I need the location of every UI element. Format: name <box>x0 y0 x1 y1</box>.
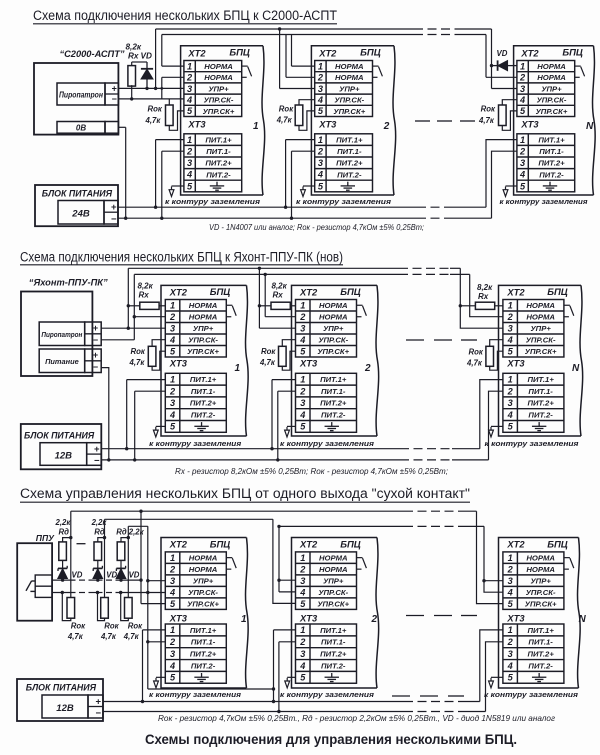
12V terminal cells sec3 <box>88 695 103 718</box>
unit 3-1 ground stub wire <box>156 676 165 678</box>
svg-text:Rд: Rд <box>59 527 70 536</box>
continuation dashes mid section3 <box>406 615 424 617</box>
wire Rok bottom hook unit2-N <box>490 351 503 370</box>
svg-text:3: 3 <box>300 649 305 659</box>
svg-text:2: 2 <box>299 637 306 647</box>
svg-text:УПР+: УПР+ <box>193 577 214 586</box>
C2000 Пиропатрон box <box>57 83 105 105</box>
12V inner box sec3 <box>42 695 88 718</box>
wire minus riser PIT1- unit2-N <box>489 391 503 460</box>
svg-text:4,7к: 4,7к <box>478 116 495 125</box>
svg-text:3: 3 <box>300 398 305 408</box>
title 2 underline <box>20 264 343 266</box>
wire Rok bottom hook unit2-2 <box>282 351 295 370</box>
svg-text:5: 5 <box>318 106 324 116</box>
wire NORMA drop to pin1 unit2 <box>291 35 293 67</box>
svg-text:2: 2 <box>317 73 324 83</box>
svg-text:+: + <box>96 696 102 707</box>
unit 3-1 connector XT2 strip <box>165 552 226 610</box>
svg-text:1: 1 <box>508 625 513 635</box>
busB section2 solid <box>134 273 399 275</box>
C2000 0V box <box>57 122 105 134</box>
svg-text:БЛОК ПИТАНИЯ: БЛОК ПИТАНИЯ <box>26 682 97 692</box>
unit 1-2 ground stub wire <box>303 185 315 187</box>
wire PIT1+ riser unit2-1 <box>126 380 128 449</box>
unit 2-N ground stub wire <box>491 425 503 427</box>
wire Rx1 to VD1 cathode <box>132 61 147 63</box>
svg-text:2: 2 <box>317 147 324 157</box>
svg-text:УПР.СК+: УПР.СК+ <box>317 600 349 609</box>
svg-text:Rок: Rок <box>71 621 86 630</box>
bus pin3 dashed sec3 <box>404 525 460 527</box>
bus1 UPR+ top solid <box>156 28 414 30</box>
unit 3-2 ground stub wire <box>287 676 295 678</box>
svg-text:4: 4 <box>169 335 175 345</box>
svg-text:НОРМА: НОРМА <box>189 565 218 574</box>
wire Rok bottom hook unit2-1 <box>152 351 165 370</box>
svg-text:4: 4 <box>169 661 175 671</box>
bus1 UPR+ dashed gap <box>414 28 459 30</box>
svg-text:ПИТ.2-: ПИТ.2- <box>539 170 564 179</box>
Yahont power terminal cells <box>85 349 102 373</box>
svg-text:N: N <box>586 121 594 132</box>
svg-text:ППУ: ППУ <box>36 533 55 543</box>
junction Rx wire unit2-2 <box>258 304 261 307</box>
wire minus bus riser to PIT1- unitN <box>492 151 517 218</box>
svg-text:ПИТ.1+: ПИТ.1+ <box>527 375 554 384</box>
svg-text:12В: 12В <box>56 703 74 714</box>
svg-text:ХТ3: ХТ3 <box>169 358 188 369</box>
power supply 12V box section3 <box>17 679 103 721</box>
svg-text:8,2к: 8,2к <box>126 43 142 52</box>
svg-text:УПР.СК+: УПР.СК+ <box>333 107 365 116</box>
BPC unit 1-N outer box <box>514 46 596 195</box>
resistor Rok2 4.7k <box>295 105 303 126</box>
junction PIT1+ unit2-1 <box>125 447 128 450</box>
bus channel3 to unit3-1 corner <box>128 525 148 527</box>
junction PIT1- unit2-2 <box>276 458 279 461</box>
svg-text:8,2к: 8,2к <box>138 281 154 290</box>
svg-text:−: − <box>93 362 98 372</box>
bus channel2 top sec3 <box>105 518 273 520</box>
svg-text:1: 1 <box>300 375 305 385</box>
svg-text:ПИТ.1+: ПИТ.1+ <box>527 626 554 635</box>
svg-text:ХТ2: ХТ2 <box>299 539 318 550</box>
svg-text:1: 1 <box>170 375 175 385</box>
svg-text:ПИТ.2-: ПИТ.2- <box>337 170 362 179</box>
svg-text:ХТ2: ХТ2 <box>506 286 525 297</box>
svg-text:УПР.СК-: УПР.СК- <box>188 588 218 597</box>
svg-text:Rок: Rок <box>261 347 276 356</box>
wire Rd2 top hook <box>98 538 105 542</box>
wire PIT1+ stub unit2 <box>286 139 315 141</box>
unit 3-2 connector XT3 strip <box>296 624 357 683</box>
wire drop unit3-1 vertical <box>147 526 149 689</box>
svg-text:4: 4 <box>169 587 175 597</box>
svg-text:1: 1 <box>170 553 175 563</box>
PPU dry contact symbol <box>26 575 52 597</box>
diode VD2 (1N4007) at unit N <box>492 60 517 70</box>
plus bus dashed gap <box>417 206 452 208</box>
bus pin3 right sec3 <box>460 525 484 527</box>
unit 1-1 ground symbol in XT3 pin 5 <box>210 182 224 191</box>
busB right solid <box>450 273 470 275</box>
junction V1 on plus wire <box>154 87 157 90</box>
svg-text:ХТ3: ХТ3 <box>299 358 318 369</box>
svg-text:ПИТ.1+: ПИТ.1+ <box>320 626 347 635</box>
svg-text:ПИТ.1-: ПИТ.1- <box>539 147 564 156</box>
wire busA corner to pin3 unit2-N <box>460 268 503 328</box>
svg-text:5: 5 <box>170 422 176 432</box>
wire Rx to pin1 unit2-2 <box>290 305 295 307</box>
wire corner pin4 unit3-N <box>484 526 503 592</box>
svg-text:1: 1 <box>170 625 175 635</box>
diode VD1 (1N5819 schottky) <box>58 566 67 580</box>
continuation dashes between unit2 and unitN mid <box>415 120 430 122</box>
wire minus riser PIT1- unit3-N <box>486 642 503 712</box>
svg-text:ХТ2: ХТ2 <box>169 286 188 297</box>
svg-text:Питание: Питание <box>45 357 79 366</box>
busA dashed gap <box>399 267 450 269</box>
wire plus bus riser to PIT1+ unitN <box>486 140 517 208</box>
svg-text:4: 4 <box>299 410 305 420</box>
junction Rd3 top on riser <box>127 536 130 539</box>
resistor Rok1 4.7k <box>166 105 174 126</box>
wire pin3 stub unitN <box>492 88 517 90</box>
svg-text:8,2к: 8,2к <box>272 281 288 290</box>
unit 1-1 connector XT2 strip <box>184 61 242 117</box>
svg-text:НОРМА: НОРМА <box>189 554 218 563</box>
BPC unit 1-1 outer box <box>181 46 265 195</box>
busA section2 solid <box>128 267 399 269</box>
svg-text:УПР.СК+: УПР.СК+ <box>536 107 568 116</box>
svg-text:1: 1 <box>300 625 305 635</box>
unit 1-2 connector XT3 strip <box>315 134 373 192</box>
plus bus dashed sec2 <box>400 448 452 450</box>
svg-text:2: 2 <box>186 147 193 157</box>
junction 0V on minus bus <box>124 217 127 220</box>
svg-text:2: 2 <box>519 73 526 83</box>
junction Rok2 hook on contact bottom bus <box>96 591 99 594</box>
bus1 UPR+ right solid <box>459 28 492 30</box>
wire 0V stub <box>118 126 125 128</box>
device C2000-ASPT box <box>34 63 118 135</box>
wire busB corner to pin2 unit2-N <box>470 274 503 316</box>
svg-text:5: 5 <box>520 106 526 116</box>
minus 12V bus solid sec3 <box>103 711 404 713</box>
svg-text:24В: 24В <box>71 209 90 220</box>
svg-text:1: 1 <box>187 61 192 71</box>
svg-text:к контуру заземления: к контуру заземления <box>500 197 589 206</box>
wire bottom branch unit3-1 to unit3-2 <box>148 688 274 690</box>
wire pin3 stub unit3-1 <box>148 580 166 582</box>
svg-text:8,2к: 8,2к <box>477 283 493 292</box>
unit 3-1 NORMA contact symbol <box>226 558 236 570</box>
svg-text:Rок: Rок <box>131 347 146 356</box>
svg-text:N: N <box>572 363 580 374</box>
junction Rok3 hook on contact bottom bus <box>119 591 122 594</box>
svg-text:ХТ2: ХТ2 <box>318 47 337 58</box>
wire Rd1 top hook <box>63 538 71 542</box>
svg-text:УПР.СК+: УПР.СК+ <box>203 107 235 116</box>
unit 2-N ground arrow <box>489 427 494 437</box>
svg-text:БПЦ: БПЦ <box>340 287 361 298</box>
wire PIT1- stub unit3-2 <box>279 641 296 643</box>
continuation dashes mid section2 <box>406 339 424 341</box>
wire pin5 corner unit3-N <box>477 511 503 603</box>
junction PIT1- unit3-1 <box>146 640 149 643</box>
resistor Rok 4.7k unit2-1 <box>148 346 156 366</box>
plus bus right sec2 <box>452 448 480 450</box>
svg-text:4: 4 <box>507 661 513 671</box>
Yahont Питание box <box>39 349 84 373</box>
svg-text:ПИТ.2+: ПИТ.2+ <box>190 399 217 408</box>
wire PIT1- stub unit2-1 <box>135 390 166 392</box>
svg-text:1: 1 <box>318 135 323 145</box>
svg-text:VD: VD <box>129 571 140 580</box>
resistor Rok3 4.7k sec3 <box>125 598 133 619</box>
junction Rd1 top on riser <box>69 536 72 539</box>
wire PIT1+ stub unit3-1 <box>143 629 166 631</box>
svg-text:1: 1 <box>508 553 513 563</box>
power supply 12V box section2 <box>21 424 102 469</box>
svg-text:4: 4 <box>507 335 513 345</box>
junction VD3 anode on contact top bus <box>119 578 122 581</box>
wire pin2 stub unit2-1 <box>134 316 165 318</box>
svg-text:Rок: Rок <box>148 105 163 114</box>
svg-text:УПР+: УПР+ <box>208 84 229 93</box>
svg-text:“С2000-АСПТ”: “С2000-АСПТ” <box>59 49 124 59</box>
svg-text:4: 4 <box>317 95 323 105</box>
svg-text:1: 1 <box>187 135 192 145</box>
unit 1-2 connector XT2 strip <box>315 61 373 117</box>
plus bus dashed sec3 <box>404 701 460 703</box>
svg-text:УПР+: УПР+ <box>530 577 551 586</box>
wire PIT1+ riser unit3-1 <box>142 630 144 702</box>
svg-text:ПИТ.2-: ПИТ.2- <box>321 661 346 670</box>
svg-text:2,2к: 2,2к <box>55 518 72 527</box>
svg-text:3: 3 <box>508 576 513 586</box>
junction pin2 stub unit2-1 <box>133 315 136 318</box>
wire plus riser PIT1+ unit3-N <box>480 630 503 702</box>
svg-text:НОРМА: НОРМА <box>537 73 566 82</box>
svg-text:БЛОК ПИТАНИЯ: БЛОК ПИТАНИЯ <box>24 430 95 440</box>
diode VD3 (1N5819 schottky) <box>116 566 125 580</box>
wire PIT1+ stub unit2-1 <box>127 379 166 381</box>
wire channel 2 riser vertical <box>104 519 106 597</box>
unit 2-2 connector XT2 strip <box>296 300 357 358</box>
svg-text:ПИТ.1+: ПИТ.1+ <box>190 626 217 635</box>
svg-text:N: N <box>579 614 587 625</box>
svg-text:1: 1 <box>300 553 305 563</box>
diode VD1 (1N4007) <box>141 62 153 88</box>
svg-text:3: 3 <box>187 158 192 168</box>
svg-text:ПИТ.1-: ПИТ.1- <box>206 147 231 156</box>
BPC unit 2-1 outer box <box>161 285 248 436</box>
svg-text:УПР.СК+: УПР.СК+ <box>187 347 219 356</box>
minus bus right sec3 <box>460 711 486 713</box>
svg-text:3: 3 <box>318 84 323 94</box>
svg-text:ПИТ.1+: ПИТ.1+ <box>538 136 565 145</box>
svg-text:4,7к: 4,7к <box>276 116 293 125</box>
BPC unit 3-2 outer box <box>292 538 379 689</box>
svg-text:4: 4 <box>299 661 305 671</box>
wire Rd2 to VD2 <box>97 560 99 568</box>
junction Rx wire unit2-N <box>459 304 462 307</box>
minus 24V bus solid <box>118 217 417 219</box>
plus bus right solid <box>452 206 486 208</box>
svg-text:к контуру заземления: к контуру заземления <box>280 690 375 699</box>
junction VD1 anode <box>145 87 148 90</box>
wire Rok2 bottom hook <box>98 593 105 621</box>
wire minus pyro unit2-1 <box>101 339 134 341</box>
svg-text:ХТ2: ХТ2 <box>520 47 539 58</box>
BPC unit 3-N outer box <box>499 538 581 689</box>
svg-text:−: − <box>111 214 117 225</box>
unit 3-2 NORMA contact symbol <box>357 558 367 570</box>
resistor Rd1 2.2k <box>59 542 67 561</box>
wire PIT1+ riser unit1 <box>155 140 157 208</box>
svg-text:ПИТ.1-: ПИТ.1- <box>321 387 346 396</box>
svg-text:4: 4 <box>519 170 525 180</box>
svg-text:Rок: Rок <box>104 621 119 630</box>
svg-text:1: 1 <box>170 301 175 311</box>
wire Rx to pin1 unit2-1 <box>159 305 165 307</box>
svg-text:−: − <box>93 335 98 345</box>
wire V3 pin2 to minus wire <box>161 77 163 99</box>
plus bus right sec3 <box>460 701 480 703</box>
svg-text:5: 5 <box>318 181 324 191</box>
wire PIT1- riser unit3-2 <box>278 642 280 712</box>
svg-text:5: 5 <box>520 181 526 191</box>
busB dashed gap <box>399 273 450 275</box>
svg-text:НОРМА: НОРМА <box>204 73 233 82</box>
svg-text:БПЦ: БПЦ <box>547 539 568 550</box>
svg-text:ПИТ.2+: ПИТ.2+ <box>336 159 363 168</box>
wire 0V drop to minus bus <box>125 127 127 218</box>
wire Rd3 top hook <box>121 538 128 542</box>
svg-text:4: 4 <box>299 335 305 345</box>
diode VD2 (1N5819 schottky) <box>93 566 102 580</box>
svg-text:5: 5 <box>170 347 176 357</box>
junction PIT1- unit2 on minus bus <box>290 217 293 220</box>
svg-text:ПИТ.2-: ПИТ.2- <box>528 661 553 670</box>
svg-text:ПИТ.1+: ПИТ.1+ <box>190 375 217 384</box>
BPC unit 2-N outer box <box>499 285 583 436</box>
svg-text:VD: VD <box>72 571 83 580</box>
wire pin2 stub unitN <box>486 76 517 78</box>
svg-text:+: + <box>112 84 117 94</box>
svg-text:БПЦ: БПЦ <box>562 48 583 59</box>
svg-text:“Яхонт-ППУ-ПК”: “Яхонт-ППУ-ПК” <box>29 278 108 288</box>
svg-text:ХТ2: ХТ2 <box>169 539 188 550</box>
wire channel 3 riser vertical <box>127 526 129 597</box>
wire UPR drop to unit2 <box>279 29 281 89</box>
junction T vertical on pin5 bus <box>139 510 142 513</box>
junction PIT1- unit1 on minus bus <box>160 217 163 220</box>
svg-text:ПИТ.1-: ПИТ.1- <box>528 638 553 647</box>
unit 3-N NORMA contact symbol <box>564 558 574 570</box>
svg-text:5: 5 <box>300 599 306 609</box>
svg-text:к контуру заземления: к контуру заземления <box>280 439 375 448</box>
junction VD1 anode on contact top bus <box>61 578 64 581</box>
svg-text:3: 3 <box>170 576 175 586</box>
svg-text:ПИТ.1-: ПИТ.1- <box>321 638 346 647</box>
svg-text:ХТ2: ХТ2 <box>299 286 318 297</box>
svg-text:4: 4 <box>169 410 175 420</box>
unit 1-N ground symbol in XT3 pin 5 <box>543 182 557 191</box>
bus pin5 top solid sec3 <box>71 510 404 512</box>
wire busB drop unit2-2 <box>264 274 266 316</box>
svg-text:ПИТ.1-: ПИТ.1- <box>337 147 362 156</box>
unit 2-1 connector XT3 strip <box>165 373 226 432</box>
svg-text:УПР.СК-: УПР.СК- <box>537 96 567 105</box>
busA right solid <box>450 267 460 269</box>
svg-text:УПР.СК-: УПР.СК- <box>318 336 348 345</box>
svg-text:УПР+: УПР+ <box>193 324 214 333</box>
resistor Rok2 4.7k sec3 <box>101 598 109 619</box>
svg-text:1: 1 <box>318 61 323 71</box>
unit 3-N connector XT2 strip <box>503 552 564 610</box>
svg-text:3: 3 <box>318 158 323 168</box>
continuation dashes ground line section3 <box>392 695 410 697</box>
svg-text:НОРМА: НОРМА <box>526 565 555 574</box>
svg-text:ХТ3: ХТ3 <box>169 613 188 624</box>
junction PIT1+ unit1 on plus bus <box>154 206 157 209</box>
wire Rx1 top lead <box>131 62 133 66</box>
svg-text:5: 5 <box>300 422 306 432</box>
bus pin5 dashed sec3 <box>404 510 460 512</box>
svg-text:ПИТ.2+: ПИТ.2+ <box>320 399 347 408</box>
junction PIT1+ unit3-2 <box>272 700 275 703</box>
junction branch on PIT1+ riser unit3-2 <box>272 687 275 690</box>
bus pin3 over unit3-2 solid <box>279 525 404 527</box>
svg-text:НОРМА: НОРМА <box>319 301 348 310</box>
svg-text:БПЦ: БПЦ <box>360 48 381 59</box>
svg-text:Rх: Rх <box>478 292 489 301</box>
svg-text:Rх: Rх <box>128 51 139 60</box>
unit 3-N connector XT3 strip <box>503 624 564 683</box>
svg-text:НОРМА: НОРМА <box>189 313 218 322</box>
wire RokN bottom hook to pin5 unitN <box>502 111 517 130</box>
bus pin5 right sec3 <box>460 510 477 512</box>
resistor Rok 4.7k unit2-N <box>486 346 494 366</box>
junction PIT1+ unit2 on plus bus <box>284 206 287 209</box>
svg-text:НОРМА: НОРМА <box>537 62 566 71</box>
svg-text:5: 5 <box>170 673 176 683</box>
svg-text:2: 2 <box>507 386 514 396</box>
unit 1-1 connector XT3 strip <box>184 134 242 192</box>
wire PIT1- stub unit2 <box>292 150 315 152</box>
svg-text:ХТ3: ХТ3 <box>506 358 525 369</box>
svg-text:ПИТ.1+: ПИТ.1+ <box>205 136 232 145</box>
svg-text:1: 1 <box>235 363 241 374</box>
contact top bus segments with dashes <box>52 579 75 581</box>
unit 3-1 connector XT3 strip <box>165 624 226 683</box>
svg-text:1: 1 <box>241 614 247 625</box>
svg-text:ПИТ.1-: ПИТ.1- <box>191 387 216 396</box>
bus2 NORMA chain solid <box>162 34 414 36</box>
wire Питание minus drop <box>101 368 109 460</box>
wire pin3 stub unit2 <box>280 88 315 90</box>
svg-text:БПЦ: БПЦ <box>229 48 250 59</box>
junction Питание minus on bus <box>107 458 110 461</box>
wire PIT1+ stub unit1 <box>156 139 184 141</box>
wire PIT1- stub unit1 <box>162 150 184 152</box>
wire V1 vertical UPR bus drop unit1 <box>155 29 157 88</box>
svg-text:Rд 2,2к: Rд 2,2к <box>116 527 144 536</box>
svg-text:Rок: Rок <box>481 105 496 114</box>
